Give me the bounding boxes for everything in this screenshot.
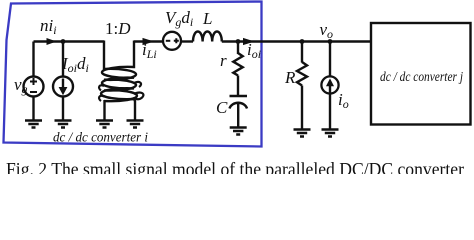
wire: R to ground bbox=[301, 86, 303, 130]
svg-text:dc / dc converter j: dc / dc converter j bbox=[380, 70, 463, 85]
svg-text:vg: vg bbox=[14, 75, 28, 96]
ground (transformer secondary) bbox=[127, 121, 144, 128]
ground (io) bbox=[322, 130, 339, 137]
wire: Ioi to ground bbox=[62, 97, 64, 121]
svg-text:R: R bbox=[284, 68, 296, 87]
wire: R branch vertical bbox=[301, 42, 303, 63]
svg-text:iLi: iLi bbox=[142, 40, 157, 61]
ground (transformer primary) bbox=[96, 121, 113, 128]
svg-text:1:D: 1:D bbox=[105, 19, 131, 38]
transformer T1 secondary outer curl bbox=[134, 82, 143, 99]
current arrow ni_i bbox=[47, 38, 57, 45]
svg-text:Fig. 2 The small signal model: Fig. 2 The small signal model of the par… bbox=[6, 160, 465, 175]
current source Ioi*di bbox=[53, 77, 73, 97]
wire: io branch top bbox=[329, 42, 331, 77]
transformer T1 primary winding bbox=[104, 41, 137, 102]
wire: primary bottom to ground bbox=[103, 100, 105, 120]
svg-text:r: r bbox=[220, 51, 227, 70]
converter j box bbox=[371, 23, 471, 125]
controlled voltage source Vg*di bbox=[163, 32, 181, 50]
wire: secondary rail to Vg*di source bbox=[134, 40, 163, 42]
wire: node to r bbox=[237, 42, 239, 55]
current source io bbox=[321, 76, 338, 93]
converter i boundary (blue box) bbox=[4, 2, 262, 147]
wire: vg vertical up bbox=[32, 42, 34, 77]
inductor L bbox=[193, 31, 222, 41]
svg-text:vo: vo bbox=[320, 20, 334, 41]
wire: r to capacitor bbox=[237, 76, 239, 97]
resistor r bbox=[233, 53, 242, 76]
svg-text:dc / dc converter i: dc / dc converter i bbox=[53, 131, 148, 146]
svg-text:Vgdi: Vgdi bbox=[165, 8, 193, 29]
ground (C) bbox=[230, 128, 247, 135]
svg-text:L: L bbox=[202, 9, 212, 28]
svg-text:io: io bbox=[338, 90, 349, 111]
junction: R branch bbox=[300, 39, 305, 44]
junction: io branch / node vo bbox=[328, 39, 333, 44]
capacitor C bbox=[230, 96, 248, 109]
transformer T1 primary outer curl bbox=[99, 85, 104, 101]
wire: io to ground bbox=[329, 93, 331, 129]
svg-text:nii: nii bbox=[40, 16, 57, 37]
wire: source to inductor bbox=[181, 40, 193, 42]
wire: Ioi branch vertical bbox=[62, 42, 64, 77]
ground (R) bbox=[294, 130, 311, 137]
wire: output rail across to converter j bbox=[254, 40, 372, 42]
wire: capacitor to ground bbox=[237, 104, 239, 127]
junction: Ioi branch on top rail bbox=[61, 39, 66, 44]
svg-text:C: C bbox=[216, 98, 228, 117]
wire: inductor to node bbox=[222, 40, 254, 42]
wire: left top rail from vg to transformer primary bbox=[34, 40, 105, 42]
current arrow iLi bbox=[143, 38, 155, 45]
resistor R bbox=[297, 62, 307, 86]
svg-text:ioi: ioi bbox=[247, 40, 261, 61]
current arrow ioi bbox=[243, 38, 255, 45]
transformer T1 secondary winding bbox=[101, 41, 135, 102]
wire: secondary bottom to ground bbox=[134, 100, 136, 120]
voltage source vg bbox=[24, 77, 44, 97]
wire: vg to ground bbox=[32, 97, 34, 121]
ground (Ioi) bbox=[55, 121, 72, 128]
svg-text:Ioidi: Ioidi bbox=[61, 54, 89, 75]
ground (vg) bbox=[25, 121, 42, 128]
junction: r/C branch bbox=[236, 39, 241, 44]
